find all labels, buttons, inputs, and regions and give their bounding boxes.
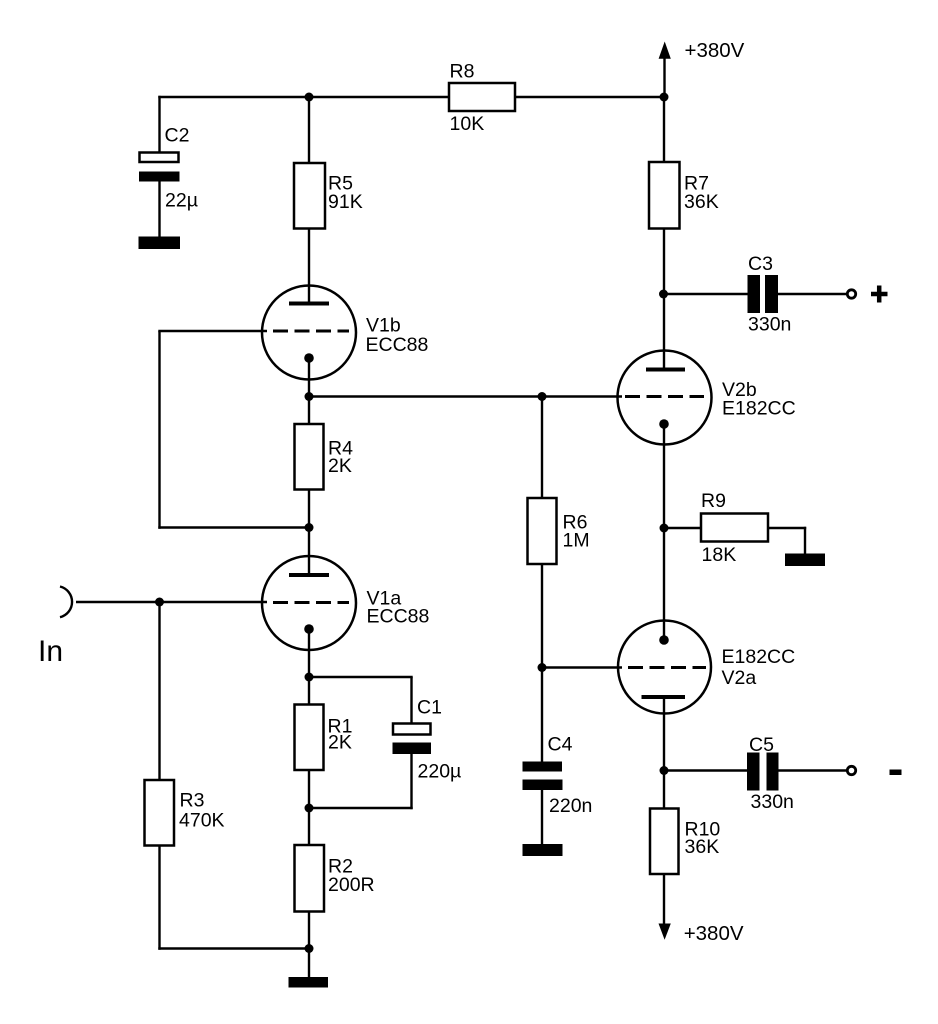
- svg-text:22µ: 22µ: [165, 190, 198, 212]
- svg-text:220n: 220n: [549, 795, 592, 817]
- svg-text:R9: R9: [701, 490, 726, 512]
- svg-text:In: In: [38, 635, 63, 668]
- svg-text:1M: 1M: [563, 530, 590, 552]
- svg-text:220µ: 220µ: [418, 761, 462, 783]
- svg-text:R3: R3: [180, 790, 205, 812]
- svg-text:C5: C5: [749, 734, 774, 756]
- svg-text:ECC88: ECC88: [366, 334, 429, 356]
- svg-text:E182CC: E182CC: [722, 398, 796, 420]
- svg-text:V2a: V2a: [722, 667, 757, 689]
- svg-text:330n: 330n: [751, 791, 794, 813]
- svg-text:2K: 2K: [328, 732, 352, 754]
- svg-text:36K: 36K: [685, 836, 720, 858]
- svg-text:2K: 2K: [328, 455, 352, 477]
- svg-text:R8: R8: [450, 61, 475, 83]
- svg-text:E182CC: E182CC: [722, 646, 796, 668]
- svg-text:10K: 10K: [450, 113, 485, 135]
- svg-text:18K: 18K: [702, 544, 737, 566]
- svg-text:+380V: +380V: [685, 39, 745, 62]
- svg-text:36K: 36K: [684, 191, 719, 213]
- svg-text:C4: C4: [548, 734, 573, 756]
- svg-text:330n: 330n: [748, 314, 791, 336]
- svg-text:ECC88: ECC88: [367, 606, 430, 628]
- svg-text:+380V: +380V: [684, 922, 744, 945]
- svg-text:200R: 200R: [328, 874, 375, 896]
- svg-text:470K: 470K: [179, 810, 225, 832]
- svg-text:C2: C2: [165, 125, 190, 147]
- svg-text:91K: 91K: [328, 191, 363, 213]
- svg-text:C1: C1: [417, 697, 442, 719]
- svg-text:C3: C3: [748, 253, 773, 275]
